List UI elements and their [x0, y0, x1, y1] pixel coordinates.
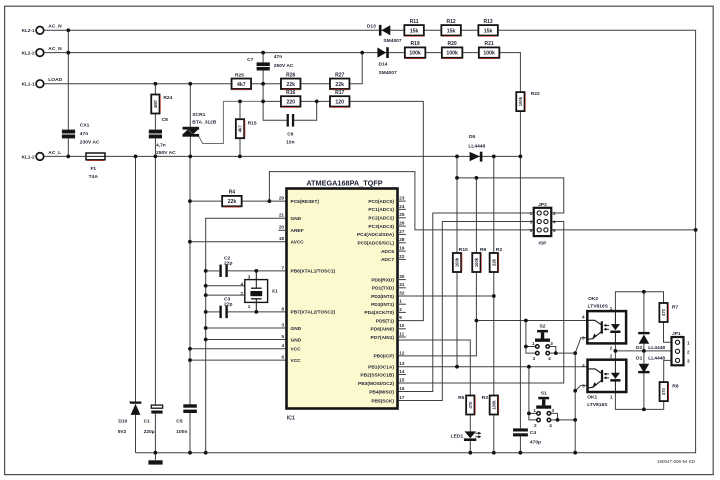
svg-text:22p: 22p — [224, 261, 232, 267]
svg-text:PB1(OC1A): PB1(OC1A) — [368, 365, 394, 371]
svg-text:23: 23 — [399, 196, 405, 201]
svg-text:GND: GND — [291, 337, 302, 343]
svg-text:4: 4 — [281, 343, 284, 348]
svg-text:VCC: VCC — [291, 347, 302, 353]
svg-text:BTA_312B: BTA_312B — [192, 119, 217, 125]
svg-text:2: 2 — [533, 356, 536, 361]
svg-text:C5: C5 — [176, 418, 183, 424]
svg-text:4: 4 — [549, 423, 552, 428]
svg-text:5: 5 — [530, 228, 533, 233]
svg-text:PD5(T1): PD5(T1) — [376, 318, 395, 324]
svg-text:VCC: VCC — [291, 358, 302, 364]
svg-text:22k: 22k — [286, 82, 295, 88]
svg-text:GND: GND — [291, 326, 302, 332]
svg-text:PC0(ADC0): PC0(ADC0) — [368, 199, 394, 205]
svg-text:LTV816S: LTV816S — [588, 304, 609, 310]
svg-text:R8: R8 — [672, 383, 679, 389]
svg-text:250V AC: 250V AC — [156, 150, 176, 156]
svg-text:31: 31 — [399, 282, 405, 287]
svg-text:PB7(XTAL2/TOSC2): PB7(XTAL2/TOSC2) — [291, 310, 336, 316]
svg-text:3: 3 — [281, 322, 284, 327]
svg-text:3: 3 — [552, 408, 555, 413]
svg-text:6: 6 — [553, 228, 556, 233]
svg-text:100k: 100k — [518, 96, 523, 106]
svg-text:R15: R15 — [248, 120, 257, 126]
svg-text:R21: R21 — [485, 41, 494, 47]
svg-text:PC5(ADC5/SCL): PC5(ADC5/SCL) — [357, 241, 394, 247]
svg-text:PD7(AIN1): PD7(AIN1) — [371, 335, 395, 341]
svg-text:C6: C6 — [287, 131, 294, 137]
svg-text:CX1: CX1 — [80, 123, 90, 129]
svg-text:R24: R24 — [163, 95, 172, 101]
svg-text:1: 1 — [533, 408, 536, 413]
svg-text:D2: D2 — [636, 345, 643, 351]
svg-text:17: 17 — [399, 395, 405, 400]
svg-text:22: 22 — [399, 254, 405, 259]
svg-text:PB4(MISO): PB4(MISO) — [369, 389, 394, 395]
svg-text:C4: C4 — [530, 430, 537, 436]
svg-text:KL2-1: KL2-1 — [22, 28, 35, 33]
svg-text:8: 8 — [281, 306, 284, 311]
svg-text:R4: R4 — [229, 190, 236, 196]
svg-text:KL1-1: KL1-1 — [22, 82, 35, 87]
svg-text:PD6(AIN0): PD6(AIN0) — [371, 327, 395, 333]
svg-text:1: 1 — [248, 304, 251, 309]
svg-text:R2: R2 — [496, 247, 503, 253]
svg-text:JP2: JP2 — [538, 202, 547, 208]
svg-text:250V AC: 250V AC — [274, 63, 294, 69]
svg-text:OK2: OK2 — [588, 296, 598, 302]
svg-text:4k7: 4k7 — [238, 125, 243, 133]
svg-text:R5: R5 — [458, 395, 465, 401]
svg-text:R13: R13 — [484, 19, 493, 25]
svg-text:30: 30 — [399, 274, 405, 279]
svg-text:AC_N: AC_N — [48, 24, 62, 30]
svg-text:AC_L: AC_L — [48, 150, 61, 156]
svg-text:4: 4 — [553, 220, 556, 225]
svg-text:4: 4 — [240, 281, 243, 286]
svg-text:PC6(RESET): PC6(RESET) — [291, 199, 320, 205]
svg-text:100k: 100k — [409, 51, 421, 57]
svg-text:ADC7: ADC7 — [381, 257, 394, 263]
svg-text:100k: 100k — [483, 51, 495, 57]
svg-text:470: 470 — [468, 401, 473, 409]
svg-text:PB2(SS/OC1B): PB2(SS/OC1B) — [360, 372, 394, 378]
svg-text:20: 20 — [279, 225, 285, 230]
svg-text:C7: C7 — [247, 57, 254, 63]
svg-text:GND: GND — [291, 216, 302, 222]
svg-text:16: 16 — [399, 386, 405, 391]
svg-text:F1: F1 — [90, 166, 96, 172]
svg-text:100k: 100k — [455, 257, 460, 267]
svg-text:1: 1 — [532, 341, 535, 346]
svg-text:R9: R9 — [480, 247, 487, 253]
svg-text:25: 25 — [399, 212, 405, 217]
svg-text:JP1: JP1 — [672, 331, 681, 337]
svg-text:LTV816S: LTV816S — [587, 402, 608, 408]
svg-text:6: 6 — [281, 355, 284, 360]
svg-text:27: 27 — [399, 229, 405, 234]
svg-text:R25: R25 — [235, 72, 244, 78]
svg-text:22k: 22k — [228, 199, 237, 205]
svg-text:D5: D5 — [469, 134, 476, 140]
svg-text:1: 1 — [610, 395, 613, 400]
svg-text:18: 18 — [279, 236, 285, 241]
svg-text:4,7n: 4,7n — [156, 143, 166, 149]
svg-text:1: 1 — [610, 306, 613, 311]
svg-text:PD2(INT0): PD2(INT0) — [371, 294, 394, 300]
svg-text:10: 10 — [399, 323, 405, 328]
svg-text:C3: C3 — [224, 296, 231, 302]
svg-text:PD0(RXD): PD0(RXD) — [371, 277, 394, 283]
svg-text:D14: D14 — [379, 61, 388, 67]
svg-text:R20: R20 — [448, 41, 457, 47]
svg-text:LOAD: LOAD — [48, 77, 62, 83]
svg-text:4: 4 — [582, 314, 585, 319]
svg-text:LL4448: LL4448 — [648, 355, 665, 361]
svg-text:15k: 15k — [410, 28, 419, 34]
svg-text:R11: R11 — [410, 19, 419, 25]
svg-text:4M7: 4M7 — [153, 99, 158, 108]
svg-text:470p: 470p — [530, 439, 541, 445]
svg-text:19: 19 — [399, 246, 405, 251]
svg-text:2: 2 — [610, 345, 613, 350]
svg-text:470: 470 — [661, 387, 666, 395]
svg-text:PD1(TXD): PD1(TXD) — [372, 286, 395, 292]
svg-text:SCR1: SCR1 — [192, 112, 205, 118]
svg-text:15k: 15k — [484, 28, 493, 34]
svg-text:13: 13 — [399, 361, 405, 366]
svg-text:R12: R12 — [447, 19, 456, 25]
svg-text:32: 32 — [399, 290, 405, 295]
svg-text:PC2(ADC2): PC2(ADC2) — [368, 216, 394, 222]
svg-text:C1: C1 — [144, 418, 151, 424]
svg-text:LL4448: LL4448 — [648, 345, 665, 351]
svg-text:D1: D1 — [636, 355, 643, 361]
svg-text:47n: 47n — [274, 54, 282, 60]
svg-text:11: 11 — [399, 331, 404, 336]
svg-text:1: 1 — [399, 299, 402, 304]
svg-text:22k: 22k — [335, 82, 344, 88]
svg-text:ADC6: ADC6 — [381, 249, 394, 255]
svg-text:3: 3 — [687, 358, 690, 363]
svg-text:470: 470 — [661, 308, 666, 316]
svg-text:R26: R26 — [286, 72, 295, 78]
svg-text:AC_N: AC_N — [48, 46, 62, 52]
svg-text:R3: R3 — [482, 395, 489, 401]
svg-text:ISP: ISP — [539, 240, 548, 246]
svg-text:100k: 100k — [474, 257, 479, 267]
svg-text:22k: 22k — [491, 258, 496, 266]
svg-text:2: 2 — [553, 211, 556, 216]
svg-text:3: 3 — [582, 383, 585, 388]
svg-text:R10: R10 — [459, 247, 468, 253]
svg-text:R19: R19 — [411, 41, 420, 47]
svg-text:24: 24 — [399, 204, 405, 209]
svg-text:T4A: T4A — [89, 174, 99, 180]
svg-text:47n: 47n — [80, 131, 88, 137]
svg-text:ATMEGA168PA_TQFP: ATMEGA168PA_TQFP — [306, 179, 382, 188]
svg-text:9: 9 — [399, 315, 402, 320]
svg-text:3: 3 — [550, 341, 553, 346]
svg-text:C2: C2 — [224, 255, 231, 261]
svg-text:120: 120 — [335, 99, 344, 105]
svg-text:LL4448: LL4448 — [468, 144, 485, 150]
svg-text:100k: 100k — [446, 51, 458, 57]
svg-text:PC4(ADC4/SDA): PC4(ADC4/SDA) — [357, 232, 394, 238]
svg-text:C8: C8 — [162, 117, 169, 123]
svg-text:AVCC: AVCC — [291, 240, 305, 246]
svg-text:22p: 22p — [224, 302, 232, 308]
svg-text:PC3(ADC3): PC3(ADC3) — [368, 224, 394, 230]
svg-text:3: 3 — [582, 336, 585, 341]
svg-text:220: 220 — [286, 99, 295, 105]
svg-text:28: 28 — [399, 237, 405, 242]
svg-text:LED1: LED1 — [451, 434, 464, 440]
svg-text:15k: 15k — [447, 28, 456, 34]
svg-text:10n: 10n — [286, 139, 294, 145]
svg-text:2: 2 — [240, 291, 243, 296]
svg-text:2: 2 — [399, 307, 402, 312]
svg-text:26: 26 — [399, 221, 405, 226]
svg-text:1: 1 — [687, 340, 690, 345]
svg-text:100k: 100k — [491, 400, 496, 410]
svg-text:15: 15 — [399, 377, 405, 382]
svg-text:5: 5 — [281, 334, 284, 339]
svg-text:D10: D10 — [118, 418, 127, 424]
svg-text:R27: R27 — [335, 72, 344, 78]
svg-text:190047-006-94 KD: 190047-006-94 KD — [657, 459, 696, 464]
svg-text:SM4007: SM4007 — [379, 70, 397, 76]
svg-text:SM4007: SM4007 — [383, 38, 401, 44]
svg-text:100n: 100n — [176, 429, 187, 435]
svg-text:4: 4 — [548, 356, 551, 361]
svg-text:PC1(ADC1): PC1(ADC1) — [368, 207, 394, 213]
svg-text:5V2: 5V2 — [118, 429, 127, 435]
svg-text:4: 4 — [582, 363, 585, 368]
svg-text:PB5(SCK): PB5(SCK) — [371, 398, 394, 404]
svg-text:KL1-2: KL1-2 — [22, 154, 35, 159]
svg-text:PB6(XTAL1/TOSC1): PB6(XTAL1/TOSC1) — [291, 269, 336, 275]
svg-text:21: 21 — [279, 213, 285, 218]
svg-text:S1: S1 — [541, 391, 547, 397]
svg-text:IC1: IC1 — [287, 416, 295, 422]
svg-text:X1: X1 — [272, 289, 278, 295]
svg-text:4k7: 4k7 — [237, 82, 246, 88]
svg-text:S2: S2 — [540, 324, 546, 330]
svg-text:PD3(INT1): PD3(INT1) — [371, 302, 394, 308]
svg-text:OK1: OK1 — [587, 395, 597, 401]
svg-text:220µ: 220µ — [144, 429, 155, 435]
svg-text:230V AC: 230V AC — [80, 140, 100, 146]
svg-text:3: 3 — [248, 274, 251, 279]
svg-text:2: 2 — [534, 423, 537, 428]
svg-text:R16: R16 — [286, 90, 295, 96]
svg-text:R17: R17 — [335, 90, 344, 96]
svg-text:29: 29 — [279, 196, 285, 201]
svg-text:R7: R7 — [672, 304, 679, 310]
svg-text:7: 7 — [281, 265, 284, 270]
svg-text:14: 14 — [399, 369, 405, 374]
svg-text:PD4(XCK/T0): PD4(XCK/T0) — [364, 310, 394, 316]
svg-text:PB0(ICP): PB0(ICP) — [373, 354, 394, 360]
svg-text:3: 3 — [530, 220, 533, 225]
svg-text:1: 1 — [530, 211, 533, 216]
svg-text:R22: R22 — [531, 91, 540, 97]
svg-text:D13: D13 — [367, 23, 376, 29]
svg-text:2: 2 — [687, 349, 690, 354]
svg-text:AREF: AREF — [291, 228, 304, 234]
svg-text:KL2-2: KL2-2 — [22, 51, 35, 56]
svg-text:12: 12 — [399, 350, 405, 355]
svg-text:2: 2 — [610, 353, 613, 358]
svg-text:PB3(MOSI/OC2): PB3(MOSI/OC2) — [358, 381, 394, 387]
